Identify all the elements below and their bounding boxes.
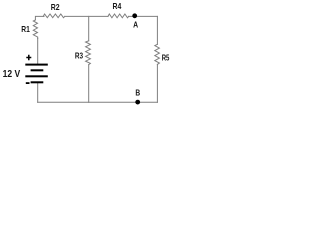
svg-text:12 V: 12 V [3, 69, 21, 80]
battery plate short 2 [31, 81, 44, 83]
node A dot [132, 13, 137, 18]
svg-text:A: A [133, 19, 138, 29]
wire top right to corner [129, 15, 158, 17]
resistor R1 [33, 20, 37, 39]
svg-text:R5: R5 [162, 53, 170, 63]
battery plate long 2 [25, 75, 48, 77]
svg-text:B: B [135, 88, 140, 98]
resistor R2 [43, 14, 65, 18]
wire bottom [38, 101, 158, 103]
wire right branch top [156, 16, 158, 44]
resistor R5 [155, 44, 160, 64]
wire R1 to battery [37, 38, 39, 63]
node B dot [135, 100, 140, 105]
wire middle branch top [88, 16, 90, 40]
resistor R4 [108, 14, 129, 18]
wire top-left corner [35, 16, 44, 20]
svg-text:R4: R4 [113, 1, 122, 11]
wire top middle [65, 15, 108, 17]
wire battery to bottom [37, 83, 39, 102]
svg-text:R2: R2 [51, 2, 60, 12]
battery plate long top [25, 64, 48, 66]
wire middle branch bottom [88, 65, 90, 103]
svg-text:R1: R1 [21, 24, 30, 34]
battery V1 plates [25, 64, 48, 84]
battery plate short 1 [31, 69, 44, 71]
battery plus sign [26, 55, 31, 61]
battery minus sign [26, 82, 30, 84]
resistor R3 [86, 41, 91, 65]
wire right branch bottom [156, 64, 158, 102]
svg-text:R3: R3 [75, 50, 83, 60]
